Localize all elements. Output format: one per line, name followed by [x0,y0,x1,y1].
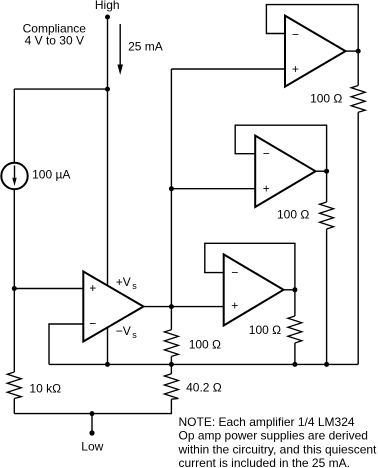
wire output distribution vertical [170,69,172,330]
10 kohm label [29,382,61,396]
wire buffer mid output down [326,171,328,202]
wire buffer mid +input [171,188,255,190]
wire Low stub [91,414,93,433]
op-amp U3 buffer middle [255,136,315,207]
svg-text:4 V to 30 V: 4 V to 30 V [25,34,84,48]
svg-text:s: s [132,330,137,340]
wire buffer top output down [357,51,359,85]
wire main output to buffer3 +input [144,306,224,308]
node dot Low branch [90,411,95,416]
resistor 100 ohm (sense upper) [164,330,178,357]
node dot main +input branch [12,286,17,291]
wire -Vs down [107,327,109,364]
node dot bottom buffer resistor rail [292,362,297,367]
svg-text:100 Ω: 100 Ω [277,208,309,222]
wire left rail upper [13,89,15,163]
wire feedback rail horizontal [49,363,358,365]
+Vs label [116,275,137,291]
svg-text:High: High [95,0,120,12]
wire 40.2 down to bottom rail [14,399,171,413]
node Low terminal dot [89,430,94,435]
wire buffer bottom feedback loop [205,243,295,289]
node dot buffer bottom output [292,287,297,292]
node dot sense rail [169,362,174,367]
op-amp U1 main amplifier [83,272,143,342]
node dot -Vs rail [105,362,110,367]
node dot buffer2 +input branch [169,186,174,191]
note text [178,415,378,468]
svg-text:+: + [292,62,299,76]
100 uA value label [32,168,70,182]
svg-text:40.2 Ω: 40.2 Ω [186,380,222,394]
wire bottom buffer resistor to rail [294,343,296,364]
node dot output distribution [169,304,174,309]
wire main op-amp -input feedback [49,324,83,364]
resistor 40.2 ohm [164,374,178,399]
svg-text:Op amp power supplies are deri: Op amp power supplies are derived [179,429,368,443]
svg-text:100 Ω: 100 Ω [249,323,281,337]
svg-text:NOTE: Each amplifier 1/4 LM324: NOTE: Each amplifier 1/4 LM324 [179,415,355,429]
op-amp U2 buffer top [285,16,346,87]
svg-text:100 Ω: 100 Ω [189,338,221,352]
wire buffer mid feedback loop [235,125,326,171]
svg-text:+V: +V [116,275,131,289]
svg-text:+: + [89,281,96,295]
node junction dot left branch [105,87,110,92]
svg-text:within the circuitry, and this: within the circuitry, and this quiescent [178,442,378,456]
wire buffer bottom output [284,289,295,291]
wire buffer mid output [316,170,327,172]
node Low label [81,440,103,454]
svg-text:Low: Low [81,440,103,454]
node High terminal dot [105,15,110,20]
40.2 ohm label [186,380,222,394]
wire top resistor to rail [357,112,359,364]
wire mid resistor to rail [326,229,328,364]
100 ohm label (sense) [189,338,221,352]
resistor 100 ohm (bottom buffer) [288,316,302,343]
svg-text:−: − [231,265,238,279]
svg-text:100 µA: 100 µA [32,168,70,182]
25 mA current flow arrow [117,24,123,75]
wire main op-amp +input [14,288,83,290]
wire top horizontal to left rail [14,88,107,90]
svg-text:100 Ω: 100 Ω [310,91,342,105]
svg-text:25 mA: 25 mA [128,40,163,54]
svg-text:+: + [231,299,238,313]
wire buffer top output [346,50,359,52]
wire buffer top +input [171,68,285,70]
node dot buffer mid output [324,169,329,174]
wire sense resistor to rail [170,356,172,373]
node High label [95,0,120,12]
svg-text:−: − [89,317,96,331]
svg-text:current is included in the 25: current is included in the 25 mA. [179,456,350,468]
svg-text:s: s [132,281,137,291]
svg-text:10 kΩ: 10 kΩ [29,382,61,396]
resistor 100 ohm (middle buffer) [320,202,334,229]
wire High vertical to +Vs [107,17,109,286]
-Vs label [116,324,137,340]
svg-text:+: + [263,181,270,195]
100 ohm label (top) [310,91,342,105]
wire buffer top feedback loop [266,5,358,52]
current source I1 100 uA [1,163,27,189]
resistor 100 ohm (top buffer) [351,86,365,113]
svg-text:−: − [292,28,299,42]
node dot buffer top output [356,49,361,54]
wire left rail middle [13,189,15,372]
svg-text:−V: −V [116,324,131,338]
100 ohm label (middle) [277,208,309,222]
svg-text:−: − [263,146,270,160]
compliance label [23,21,87,47]
op-amp U4 buffer bottom [224,254,284,325]
resistor 10 kohm [7,372,21,399]
wire 10k to bottom rail [13,399,15,414]
25 mA label [128,40,163,54]
100 ohm label (bottom buffer) [249,323,281,337]
wire buffer bottom output down [294,290,296,316]
node dot mid resistor rail [324,362,329,367]
